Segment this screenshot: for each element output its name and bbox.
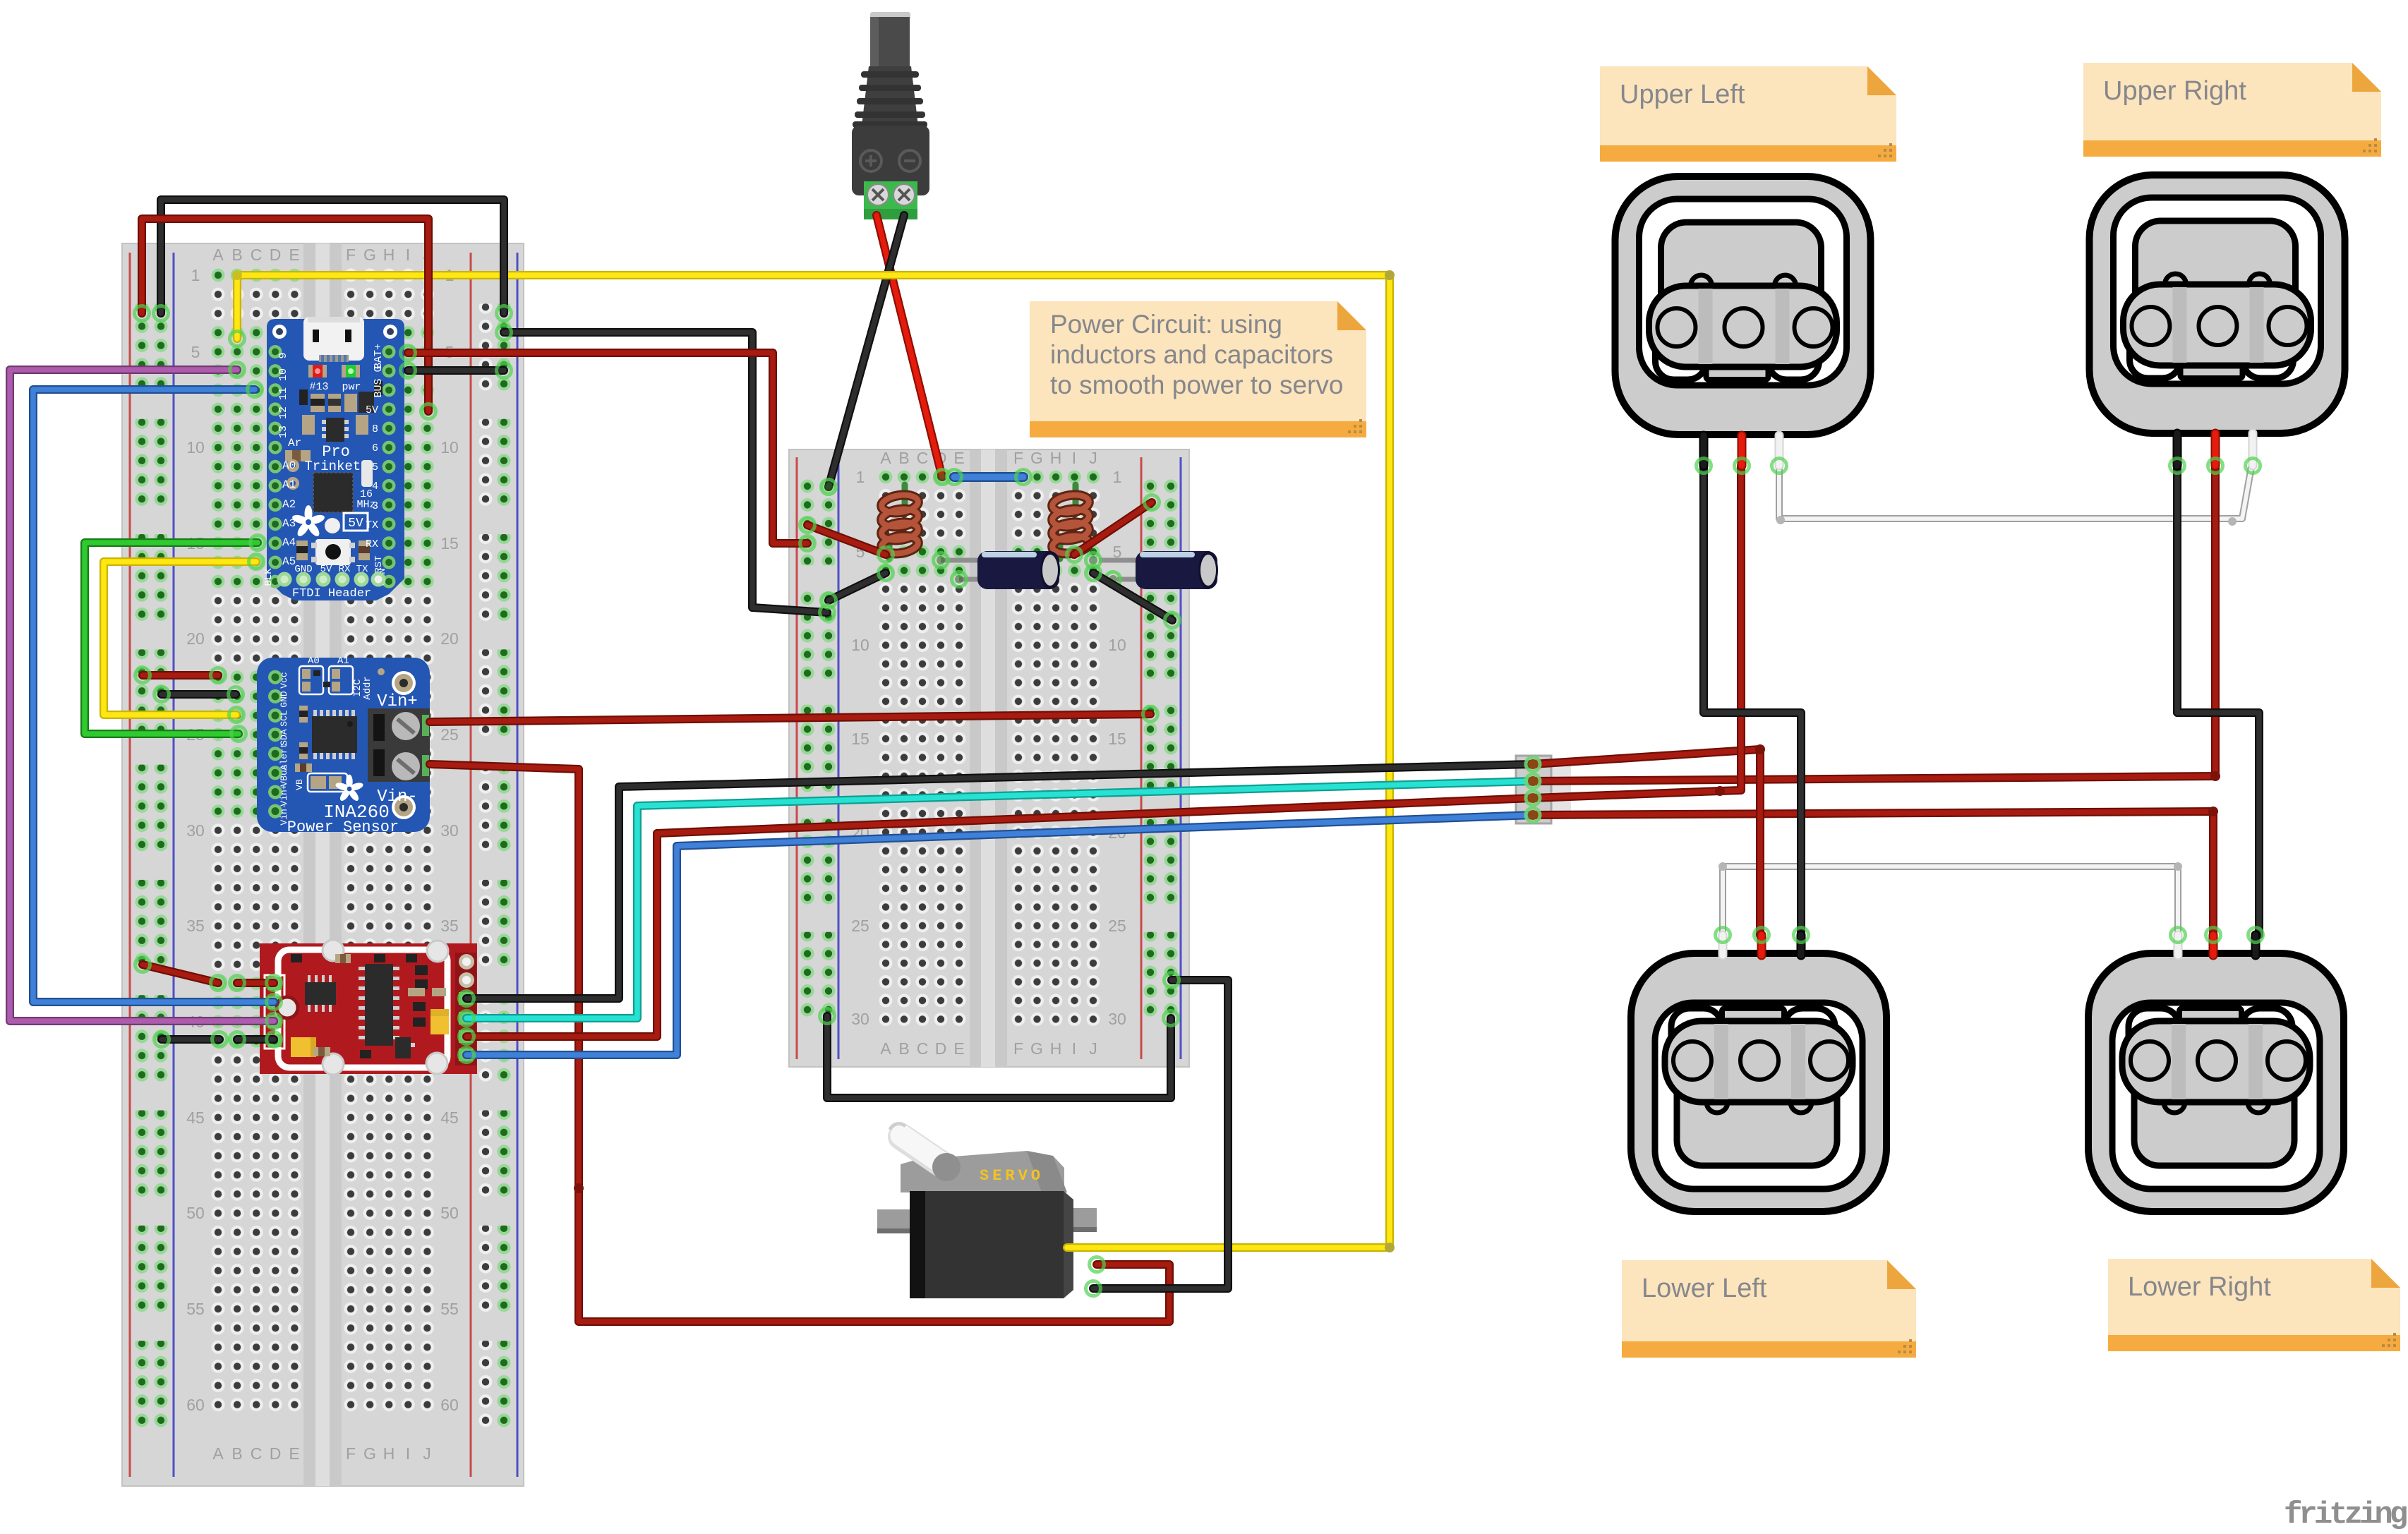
inductor L1	[881, 485, 920, 559]
svg-text:50: 50	[186, 1204, 205, 1222]
svg-text:E: E	[289, 1444, 299, 1463]
4-pin connector CN1	[1516, 756, 1571, 823]
wire blue HX711 to connector pin4	[466, 815, 1533, 1055]
bend dot yellow bottom	[1385, 1243, 1395, 1252]
svg-text:G: G	[1030, 449, 1043, 467]
wire black top: left rail to right rail	[161, 200, 504, 313]
svg-text:Lower Left: Lower Left	[1642, 1274, 1767, 1303]
breadboard BB1 (full-size, left)	[122, 243, 524, 1486]
svg-text:D: D	[935, 1039, 947, 1058]
bend dot yellow top	[1385, 270, 1395, 280]
svg-text:H: H	[1050, 1039, 1062, 1058]
svg-text:FTDI Header: FTDI Header	[292, 587, 371, 600]
svg-text:A5: A5	[282, 555, 296, 568]
UR black stub	[2173, 433, 2182, 466]
wire black jumper B41 to HX711 GND	[237, 1035, 274, 1044]
svg-text:35: 35	[440, 917, 459, 935]
svg-text:I: I	[1072, 449, 1076, 467]
svg-text:B: B	[231, 246, 242, 264]
svg-text:F: F	[346, 246, 356, 264]
svg-text:I: I	[1072, 1039, 1076, 1058]
svg-text:A0: A0	[308, 656, 320, 667]
wire black BB2 right rail to servo -	[1093, 980, 1228, 1288]
bend dot red fan 2	[2210, 771, 2220, 781]
UL white stub	[1775, 435, 1784, 466]
wire jack + to BB2 D1 (red)	[877, 215, 942, 477]
svg-text:BUS G: BUS G	[373, 366, 385, 397]
svg-text:A4: A4	[282, 536, 296, 549]
BB2 row numbers and column letters	[851, 449, 1126, 1058]
svg-text:H: H	[383, 1444, 395, 1463]
svg-text:Upper Left: Upper Left	[1620, 80, 1745, 109]
BB1 row numbers and column letters	[186, 246, 459, 1463]
svg-text:1: 1	[856, 468, 865, 486]
svg-text:10: 10	[851, 636, 869, 654]
Pro Trinket microcontroller U1	[263, 317, 404, 600]
svg-text:F: F	[1013, 1039, 1023, 1058]
capacitor C2 (electrolytic)	[1099, 551, 1218, 589]
DC barrel jack J1	[852, 12, 929, 219]
wire black right rail to BB2 left rail (gnd)	[504, 332, 827, 612]
svg-text:5V: 5V	[320, 564, 332, 575]
CN1 pins	[1526, 757, 1540, 822]
wire red rail+ to A22 Vcc	[143, 671, 218, 680]
wire black UL to LL	[1704, 466, 1801, 935]
svg-text:13: 13	[277, 425, 289, 438]
svg-text:20: 20	[186, 629, 205, 648]
HX711 load cell amplifier U3	[260, 940, 477, 1075]
UR white stub	[2249, 433, 2258, 466]
UL red stub	[1738, 435, 1747, 466]
svg-text:15: 15	[1108, 730, 1126, 748]
svg-text:F: F	[1013, 449, 1023, 467]
bend dot upper white	[1776, 516, 1785, 524]
wire red rail+ to A38	[143, 965, 218, 983]
svg-text:pwr: pwr	[342, 381, 361, 393]
svg-text:G: G	[363, 246, 376, 264]
bend dot yellow B1	[232, 270, 242, 280]
svg-text:H: H	[1050, 449, 1062, 467]
svg-text:10: 10	[440, 438, 459, 457]
svg-text:1: 1	[191, 266, 200, 284]
svg-text:C: C	[917, 449, 929, 467]
wire black rail- to A41	[162, 1035, 219, 1044]
svg-text:5: 5	[372, 461, 378, 473]
svg-text:RX: RX	[339, 564, 351, 575]
svg-text:5V: 5V	[366, 404, 378, 416]
LL black stub	[1797, 935, 1806, 955]
svg-text:A2: A2	[282, 498, 296, 511]
note: Upper Left	[1600, 66, 1896, 162]
C1 + lead cap	[934, 553, 949, 568]
svg-text:C: C	[917, 1039, 929, 1058]
svg-text:GND: GND	[279, 691, 289, 708]
wire blue jumper E1-F1	[954, 472, 1023, 482]
connection caps (green rings)	[135, 306, 2263, 1296]
svg-text:35: 35	[186, 917, 205, 935]
svg-text:9: 9	[277, 352, 289, 358]
svg-text:fritzing: fritzing	[2284, 1497, 2407, 1533]
svg-text:Addr: Addr	[362, 676, 373, 700]
svg-text:J: J	[1089, 449, 1097, 467]
bend dot lower white	[1718, 862, 1727, 871]
svg-text:A1: A1	[282, 478, 296, 491]
LR black stub	[2251, 935, 2260, 955]
wire yellow servo signal B1 to servo	[237, 275, 1390, 1248]
wire cyan HX711 to connector pin2	[466, 781, 1533, 1018]
svg-text:VB: VB	[294, 779, 305, 790]
svg-text:10: 10	[186, 438, 205, 457]
svg-text:#13: #13	[309, 381, 328, 393]
svg-text:G: G	[363, 1444, 376, 1463]
svg-text:25: 25	[851, 917, 869, 935]
wire upper white pair UL-UR	[1779, 466, 2251, 519]
wire black BB2 rail- to A6	[829, 573, 886, 600]
svg-text:A3: A3	[282, 517, 296, 530]
svg-text:30: 30	[440, 821, 459, 840]
wire red connector pin3 to UL red	[1533, 466, 1741, 798]
svg-text:J: J	[423, 1444, 431, 1463]
bend dot upper white 2	[2228, 517, 2237, 526]
svg-text:SERVO: SERVO	[980, 1167, 1044, 1185]
wire yellow C16 A5 to B24 SCL	[104, 562, 256, 715]
svg-text:15: 15	[440, 534, 459, 552]
wire red Vin+ to BB2 right rail (+)	[430, 714, 1150, 722]
svg-text:J: J	[1089, 1039, 1097, 1058]
svg-text:I: I	[406, 246, 410, 264]
svg-text:60: 60	[186, 1396, 205, 1414]
note: Power Circuit	[1030, 301, 1366, 437]
wire red connector pin1 to LL red	[1533, 749, 1760, 935]
svg-text:45: 45	[440, 1109, 459, 1127]
wire red BB2 I5 to right rail+	[1074, 502, 1152, 555]
wire black rail- to B23 GND	[162, 690, 236, 699]
C2 - lead cap	[1106, 572, 1121, 587]
svg-text:BLK: BLK	[263, 568, 275, 586]
svg-text:Lower Right: Lower Right	[2128, 1272, 2271, 1302]
svg-text:4: 4	[372, 481, 378, 493]
svg-text:I: I	[406, 1444, 410, 1463]
UR red stub	[2211, 433, 2220, 466]
svg-text:10: 10	[1108, 636, 1126, 654]
svg-text:25: 25	[1108, 917, 1126, 935]
load cell: Upper Right	[2090, 175, 2345, 433]
svg-text:15: 15	[851, 730, 869, 748]
svg-text:F: F	[346, 1444, 356, 1463]
capacitor C1 (electrolytic)	[941, 551, 1060, 589]
svg-text:6: 6	[372, 442, 378, 454]
svg-text:Vin+: Vin+	[279, 784, 289, 806]
svg-text:Vcc: Vcc	[279, 672, 289, 688]
svg-text:B: B	[231, 1444, 242, 1463]
svg-text:30: 30	[186, 821, 205, 840]
svg-text:8: 8	[372, 423, 378, 435]
wire red HX711 to connector pin3	[466, 798, 1533, 1037]
BB1 main grid holes	[207, 265, 438, 1415]
svg-text:VBus: VBus	[279, 764, 289, 786]
svg-text:20: 20	[440, 629, 459, 648]
UL black stub	[1699, 435, 1709, 466]
svg-text:3: 3	[372, 500, 378, 512]
svg-text:5: 5	[191, 343, 200, 361]
note: Lower Right	[2108, 1259, 2400, 1351]
svg-text:A: A	[212, 246, 224, 264]
svg-text:SCL: SCL	[279, 710, 289, 726]
bend dot lower white 2	[2174, 862, 2182, 871]
wire lower white pair LL-LR	[1723, 866, 2178, 935]
BB1 power rails holes	[132, 303, 514, 1431]
note: Upper Right	[2083, 63, 2381, 157]
svg-text:1: 1	[1113, 468, 1122, 486]
svg-text:Trinket!: Trinket!	[304, 459, 368, 474]
wire blue C7 to HX711 DAT	[33, 389, 274, 1002]
svg-text:A: A	[880, 449, 891, 467]
svg-text:60: 60	[440, 1396, 459, 1414]
load cell: Lower Left	[1631, 953, 1886, 1212]
svg-text:TX: TX	[366, 519, 378, 531]
svg-text:C: C	[251, 246, 263, 264]
BB2 main grid holes	[876, 467, 1103, 1029]
wire red BB2 rail+ to A5	[807, 525, 886, 555]
svg-text:55: 55	[186, 1300, 205, 1318]
bend dot red fan 1	[1755, 744, 1765, 754]
svg-text:A: A	[880, 1039, 891, 1058]
svg-text:12: 12	[277, 406, 289, 419]
wire red top: left rail to J8 (5V)	[142, 219, 428, 411]
INA260 power sensor U2	[257, 656, 430, 836]
svg-text:B: B	[898, 449, 909, 467]
LL red stub	[1757, 935, 1766, 955]
svg-text:5V: 5V	[348, 517, 363, 531]
LL white stub	[1718, 935, 1728, 955]
svg-text:45: 45	[186, 1109, 205, 1127]
wire black BB2 under-board ground U	[827, 1016, 1171, 1098]
svg-text:E: E	[289, 246, 299, 264]
C1 - lead cap	[952, 572, 967, 587]
wire red jumper B38 to HX711 VCC	[237, 979, 274, 987]
wire black I6 G to right rail	[408, 366, 504, 375]
LR white stub	[2174, 935, 2183, 955]
wire black UR to LR	[2177, 466, 2259, 935]
svg-text:A: A	[212, 1444, 224, 1463]
BB2 power rails holes	[797, 478, 1181, 1020]
svg-text:D: D	[270, 246, 282, 264]
bend dot red fan 4	[1715, 786, 1725, 796]
svg-text:G: G	[1030, 1039, 1043, 1058]
svg-text:Ar: Ar	[288, 437, 301, 449]
inductor L2	[1052, 485, 1090, 559]
svg-text:A1: A1	[337, 656, 349, 667]
joint dot red Vin- wire	[574, 1183, 584, 1193]
svg-text:BAT+: BAT+	[373, 344, 385, 369]
wire black BB2 J6 to right rail-	[1093, 573, 1172, 620]
svg-text:E: E	[953, 1039, 964, 1058]
svg-text:10: 10	[277, 368, 289, 381]
svg-text:25: 25	[440, 725, 459, 744]
svg-text:TX: TX	[356, 564, 368, 575]
svg-text:RX: RX	[366, 538, 378, 550]
svg-text:D: D	[270, 1444, 282, 1463]
wire black HX711 to connector pin1	[466, 764, 1533, 998]
svg-text:11: 11	[277, 387, 289, 400]
wire red Vin- loop to servo +	[430, 764, 1169, 1322]
breadboard BB2 (half-size, middle)	[789, 449, 1189, 1067]
wire jack - to BB2 left rail (black)	[829, 215, 904, 487]
LR red stub	[2209, 935, 2218, 955]
bend dot red fan 3	[2208, 807, 2218, 816]
svg-text:30: 30	[851, 1010, 869, 1028]
load cell: Lower Right	[2088, 953, 2344, 1212]
servo M1	[877, 1124, 1097, 1298]
svg-text:A0: A0	[282, 459, 296, 472]
wire purple B6 to HX711 CLK	[10, 370, 274, 1021]
svg-text:Power Sensor: Power Sensor	[287, 819, 399, 836]
svg-text:C: C	[251, 1444, 263, 1463]
wire red connector pin4 to LR red	[1533, 811, 2213, 935]
load cell: Upper Left	[1615, 176, 1871, 435]
wire green C15 A4 to B25 SDA	[85, 543, 258, 734]
wire red connector pin2 to UR red	[1533, 466, 2215, 781]
svg-text:Vin+: Vin+	[377, 692, 418, 711]
svg-text:30: 30	[1108, 1010, 1126, 1028]
svg-text:H: H	[383, 246, 395, 264]
wire red I5 BAT+ to BB2 left rail (+)	[408, 353, 807, 543]
jack black end cap	[821, 480, 836, 495]
C2 + lead cap	[1086, 553, 1101, 568]
jack red end cap	[935, 470, 950, 485]
svg-text:55: 55	[440, 1300, 459, 1318]
svg-text:GND: GND	[294, 564, 312, 575]
svg-text:E: E	[953, 449, 964, 467]
note: Lower Left	[1622, 1260, 1916, 1358]
svg-text:Upper Right: Upper Right	[2103, 76, 2246, 106]
svg-text:B: B	[898, 1039, 909, 1058]
svg-text:Vin-: Vin-	[377, 787, 418, 807]
svg-text:50: 50	[440, 1204, 459, 1222]
